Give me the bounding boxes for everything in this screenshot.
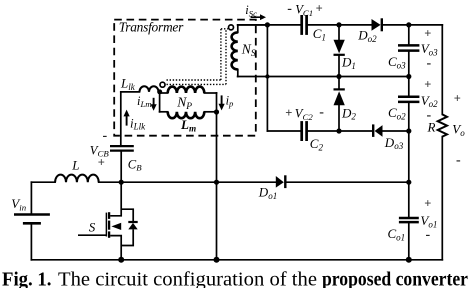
capacitor Co3 <box>398 45 419 50</box>
capacitor CB <box>110 146 134 151</box>
diode Do3 (pointing left) <box>373 124 382 136</box>
diode D1 (pointing down) <box>334 40 345 55</box>
capacitor C2 <box>302 121 307 141</box>
wire Np Lm left leg <box>159 92 161 112</box>
coupling dotted line inner <box>167 29 221 80</box>
wire Llk lead right <box>159 91 160 93</box>
wire bottom rail <box>31 259 442 261</box>
MOSFET S body-diode branch top <box>121 209 133 222</box>
wire Llk lead left <box>121 91 140 93</box>
coupling dotted line outer <box>167 29 229 85</box>
wire D1 column upper <box>338 25 340 40</box>
arrow iLlk (up) <box>126 114 128 126</box>
svg-text:+: + <box>285 106 292 120</box>
battery Vin <box>14 215 50 224</box>
node CB/rail4 dot <box>119 180 124 185</box>
capacitor C1 <box>302 15 307 35</box>
wire rail3 (C2 to Do3) <box>308 130 372 132</box>
wire Vin top leg <box>30 182 32 213</box>
node D1 top dot <box>336 22 341 27</box>
svg-text:+: + <box>424 26 431 40</box>
wire node A vertical x=267.4 <box>266 25 268 131</box>
wire output column x=408.8 mid2 <box>408 103 410 217</box>
node rail4 output dot <box>406 180 411 185</box>
svg-text:-: - <box>287 2 292 17</box>
capacitor Co2 <box>398 97 419 102</box>
wire rail4 Vin corner to L <box>31 181 55 183</box>
svg-text:-: - <box>456 153 461 168</box>
wire CB column upper (transformer left leg) <box>120 92 122 145</box>
wire D2 column lower <box>338 105 340 131</box>
wire Lm lead right <box>204 111 216 113</box>
svg-text:+: + <box>424 78 431 92</box>
node bottom rail output dot <box>406 257 412 263</box>
winding Lm (magnetizing) <box>168 112 205 118</box>
MOSFET S channel pads <box>108 212 110 238</box>
wire right rail upper (corner to R) <box>441 25 443 115</box>
wire CB column lower (CB to rail4) <box>120 152 122 182</box>
arrow ip (down) <box>221 95 223 105</box>
svg-text:-: - <box>103 129 108 144</box>
node D2 rail3 dot <box>336 128 341 133</box>
capacitor Co1 <box>399 218 419 222</box>
inductor Llk (leakage) <box>140 86 159 92</box>
wire primary right leg x=216.5 <box>216 93 218 260</box>
MOSFET S source lead <box>110 236 121 260</box>
wire rail1 top (node A to C1) <box>238 24 301 26</box>
svg-text:S: S <box>89 220 96 235</box>
svg-text:+: + <box>316 1 323 15</box>
wire Lm lead left <box>160 111 168 113</box>
svg-text:-: - <box>427 56 432 71</box>
wire Np lead right <box>204 92 216 94</box>
wire D1 column lower <box>338 56 340 77</box>
svg-text:L: L <box>71 157 79 172</box>
wire rail3 (C2 left corner to C2) <box>267 130 300 132</box>
wire rail1 (Do2 to right corner) <box>383 24 442 26</box>
node Do2/Co3 dot <box>406 22 411 27</box>
diode D2 (pointing up) <box>334 89 345 105</box>
polarity dot secondary (circle) <box>229 25 234 30</box>
wire Vin bottom leg <box>30 225 32 260</box>
arrow iLm (down) <box>153 98 155 106</box>
diode Do2 (pointing right) <box>372 18 382 31</box>
wire rail4 L to Do1 <box>99 181 276 183</box>
MOSFET S body-diode branch bottom <box>121 229 133 245</box>
svg-text:Fig. 1.The circuit configurati: Fig. 1.The circuit configuration of thep… <box>2 268 468 288</box>
winding NP <box>168 87 205 93</box>
MOSFET S drain lead <box>78 182 133 260</box>
wire rail4 Do1 to node <box>287 181 409 183</box>
wire output column x=408.8 lower <box>408 223 410 259</box>
node rail3 output dot <box>406 128 411 133</box>
transformer dashed box <box>114 20 256 136</box>
wire output column x=408.8 mid1 <box>408 52 410 96</box>
inductor L (input) <box>55 175 99 183</box>
node A dot (Ns top / C1) <box>265 22 270 27</box>
wire D2 column upper <box>338 77 340 89</box>
node Llk/Np/Lm dot <box>157 89 162 94</box>
svg-text:+: + <box>98 155 105 169</box>
winding NS (secondary) <box>232 32 238 69</box>
svg-text:-: - <box>426 227 431 242</box>
wire Np lead left <box>160 92 168 94</box>
svg-text:Transformer: Transformer <box>119 19 184 34</box>
node primary leg/rail4 dot <box>214 180 219 185</box>
svg-text:R: R <box>427 119 436 134</box>
wire right rail lower (R to bottom corner) <box>441 137 443 260</box>
wire output column x=408.8 upper <box>408 25 410 44</box>
MOSFET body diode (pointing up) <box>128 222 137 229</box>
node S source bottom dot <box>118 257 124 263</box>
MOSFET S gate bar <box>105 213 107 237</box>
diode Do1 (pointing right) <box>276 175 286 188</box>
wire rail2 (Ns bottom across to Co2 top node) <box>238 76 409 78</box>
svg-text:+: + <box>454 92 461 106</box>
arrow iSc (right) <box>251 16 263 18</box>
MOSFET S gate lead <box>78 234 106 236</box>
wire rail3 (Do3 to node) <box>383 130 409 132</box>
node Co3/Co2 rail2 dot <box>406 74 411 79</box>
svg-text:+: + <box>424 197 431 211</box>
wire Ns bottom elbow <box>237 69 239 76</box>
wire Ns top elbow <box>237 25 239 33</box>
node D1/D2 rail2 dot <box>336 74 341 79</box>
MOSFET S arrow <box>111 223 121 230</box>
node Np/Lm right dot <box>214 109 219 114</box>
resistor R zigzag <box>438 114 447 136</box>
svg-text:-: - <box>319 105 324 120</box>
node primary leg bottom dot <box>214 257 220 263</box>
node Ns bottom rail2 dot <box>265 74 269 78</box>
wire Ns top lead to node A <box>238 24 268 26</box>
wire rail1 (C1 to Do2) <box>308 24 371 26</box>
polarity dot primary (circle) <box>160 82 165 87</box>
